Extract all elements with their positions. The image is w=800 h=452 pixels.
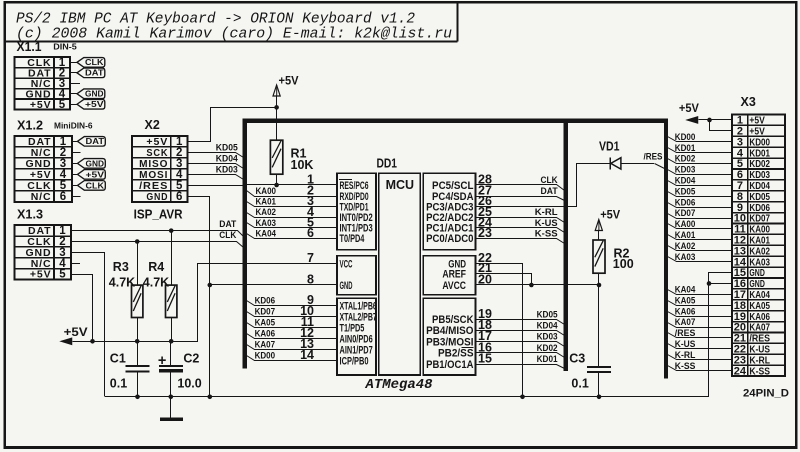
svg-text:R4: R4 [148, 260, 164, 274]
wire KD04 from pin 18 [476, 331, 565, 336]
svg-text:+: + [158, 353, 166, 369]
wire KD07 to pin 10 [247, 312, 337, 317]
MCU DD1 right box pins 28-23 [423, 173, 475, 250]
junction GND vertical / ground rail [208, 395, 213, 400]
wire C3 bottom [598, 373, 600, 397]
+5V arrow (R2) [595, 220, 602, 231]
svg-text:ATMega48: ATMega48 [365, 377, 434, 393]
overline on SS (PB2/SS) [462, 347, 474, 349]
wire C1 bottom [137, 373, 139, 397]
capacitor C1 [126, 365, 150, 367]
wire KA07 to X3 pin 20 [668, 323, 732, 328]
svg-text:X2: X2 [145, 118, 160, 132]
wire KA02 to X3 pin 13 [668, 246, 732, 251]
svg-text:C3: C3 [569, 352, 585, 366]
wire KA07 to pin 13 [247, 345, 337, 350]
svg-text:KA04: KA04 [256, 228, 277, 239]
svg-text:+5V: +5V [279, 73, 299, 87]
junction pin22 GND / ground rail [520, 395, 525, 400]
wire KD07 to X3 pin 10 [668, 214, 732, 219]
wire K-US from pin 24 [476, 228, 565, 233]
svg-text:KD00: KD00 [675, 132, 696, 143]
svg-text:K-SS: K-SS [535, 228, 558, 239]
svg-text:KA00: KA00 [256, 186, 277, 197]
junction C2 / ground rail [169, 395, 174, 400]
wire C1 top [137, 341, 139, 365]
wire X1.2 pin 4 [72, 174, 78, 176]
net flag +5V (X1.1) [77, 99, 105, 109]
svg-text:ISP_AVR: ISP_AVR [134, 208, 183, 222]
junction R1 top / X2 +5V [274, 105, 279, 110]
wire GND to pin8 [210, 284, 337, 286]
svg-text:23: 23 [478, 226, 492, 240]
wire KD05 from pin 19 [476, 320, 565, 325]
MCU DD1 right box GND/AREF/AVCC [423, 256, 475, 295]
wire K-SS to X3 pin 24 [668, 366, 732, 371]
svg-text:X1.3: X1.3 [17, 208, 43, 222]
svg-text:KD03: KD03 [216, 164, 238, 175]
svg-text:KD04: KD04 [675, 175, 696, 186]
stub X1.3 pin 4 N/C [71, 263, 80, 265]
svg-text:PB4/MISO: PB4/MISO [426, 325, 474, 337]
wire R2 bottom to AVCC [598, 273, 600, 285]
wire KD04 from X2 pin 3 [188, 164, 244, 169]
resistor R1 [270, 140, 282, 174]
bus right vertical (X3 side) [664, 119, 668, 379]
net flag CLK (X1.1) [77, 58, 105, 68]
wire CLK from X1.3 pin2 [71, 242, 244, 248]
svg-text:VD1: VD1 [599, 140, 620, 154]
svg-text:CLK: CLK [541, 175, 558, 186]
svg-text:KA01: KA01 [256, 197, 277, 208]
wire KD01 from pin 15 [476, 365, 565, 369]
bus left vertical [243, 119, 247, 369]
bus top horizontal [243, 119, 668, 123]
svg-text:R3: R3 [113, 260, 129, 274]
wire KD00 to pin 14 [247, 356, 337, 361]
wire R3 top [137, 241, 139, 285]
svg-text:K-US: K-US [675, 339, 696, 350]
wire /RES from pin26 via VD1 [476, 164, 611, 207]
wire KA04 to pin 6 [247, 234, 337, 239]
svg-text:KD05: KD05 [537, 309, 559, 320]
svg-text:KA05: KA05 [255, 318, 276, 329]
svg-text:KA03: KA03 [256, 218, 277, 229]
stub X1.1 pin 3 N/C [70, 83, 80, 85]
svg-text:/RES: /RES [675, 328, 696, 339]
svg-text:T0/PD4: T0/PD4 [340, 233, 365, 245]
svg-text:KD07: KD07 [675, 208, 696, 219]
svg-text:6: 6 [176, 191, 182, 203]
wire R3 bottom [137, 318, 139, 342]
svg-text:0.1: 0.1 [110, 376, 127, 390]
MCU DD1 left box VCC/GND [337, 256, 376, 295]
wire X1.2 pin 5 [72, 185, 78, 187]
bus middle vertical [564, 119, 568, 371]
wire KD00 to X3 pin 3 [668, 137, 732, 142]
svg-text:AREF: AREF [442, 268, 466, 280]
wire KA02 to pin 4 [247, 213, 337, 218]
svg-text:DIN-5: DIN-5 [53, 43, 77, 52]
connector X1.3 [15, 225, 71, 279]
svg-text:KD05: KD05 [675, 186, 696, 197]
svg-text:KD00: KD00 [255, 351, 276, 362]
wire X1.1 pin 2 [70, 72, 77, 74]
MCU DD1 center body [379, 173, 421, 375]
wire X3 pin1 +5V [698, 119, 732, 121]
wire KA01 to pin 3 [247, 202, 337, 207]
wire X1.3 pin3 GND [71, 253, 105, 397]
svg-text:+5V: +5V [679, 101, 699, 115]
svg-text:10.0: 10.0 [177, 376, 201, 390]
wire pin20 AVCC to R2/C3 [475, 284, 599, 286]
svg-text:KD06: KD06 [675, 197, 696, 208]
junction X1.3 +5V / rail [90, 339, 95, 344]
junction R3/C1 / rail [135, 339, 140, 344]
svg-text:KA06: KA06 [675, 306, 696, 317]
junction AVCC / R2 bottom [597, 283, 602, 288]
svg-text:CLK: CLK [219, 230, 236, 241]
svg-text:CLK: CLK [86, 181, 105, 190]
diode VD1 [609, 157, 611, 169]
svg-text:DD1: DD1 [377, 157, 398, 171]
+5V arrow (bottom left) [61, 338, 72, 345]
svg-text:+5V: +5V [64, 325, 88, 339]
svg-text:KA02: KA02 [256, 207, 277, 218]
svg-text:24: 24 [734, 365, 747, 377]
wire R1 bottom to /RES pin1 [276, 174, 278, 185]
net flag DAT (X1.1) [77, 68, 105, 78]
net flag GND (X1.1) [77, 89, 105, 99]
wire KA06 to pin 12 [247, 334, 337, 339]
svg-text:KD06: KD06 [255, 296, 276, 307]
svg-text:GND: GND [146, 191, 168, 203]
svg-text:X1.2: X1.2 [17, 118, 43, 132]
ground [170, 397, 172, 418]
svg-text:K-RL: K-RL [675, 350, 696, 361]
svg-text:6: 6 [60, 191, 66, 203]
svg-text:DAT: DAT [219, 219, 236, 230]
net flag +5V (X1.2) [78, 170, 106, 180]
overline on RES [339, 179, 352, 181]
svg-text:KA04: KA04 [675, 284, 696, 295]
svg-text:5: 5 [59, 269, 66, 281]
wire KA04 to X3 pin 17 [668, 290, 732, 295]
wire KD02 from pin 16 [476, 353, 565, 358]
wire KA00 to X3 pin 11 [668, 224, 732, 229]
junction R4/C2 / rail [169, 339, 174, 344]
svg-text:100: 100 [613, 257, 634, 271]
svg-text:PB1/OC1A: PB1/OC1A [426, 359, 473, 371]
svg-text:KA03: KA03 [675, 252, 696, 263]
svg-text:KA02: KA02 [675, 241, 696, 252]
svg-text:(c) 2008 Kamil Karimov (caro: (c) 2008 Kamil Karimov (caro) E-mail: k2… [16, 26, 452, 42]
svg-text:PB2/SS: PB2/SS [438, 348, 474, 360]
wire +5V to R1 top [276, 96, 278, 140]
net flag CLK (X1.2) [78, 181, 106, 191]
wire K-SS from pin 23 [476, 239, 565, 244]
svg-text:KD07: KD07 [255, 307, 276, 318]
svg-text:15: 15 [478, 352, 492, 366]
svg-text:GND: GND [85, 90, 104, 99]
wire K-US to X3 pin 22 [668, 344, 732, 349]
wire C3 top (AVCC) [598, 285, 600, 366]
MCU DD1 left box pins 9-14 [337, 298, 376, 375]
wire KD03 from pin 17 [476, 342, 565, 347]
frame border [4, 1, 797, 3]
svg-text:5: 5 [59, 99, 66, 111]
svg-text:CLK: CLK [85, 58, 104, 67]
svg-text:N/C: N/C [31, 191, 52, 203]
capacitor C2 top plate [159, 365, 183, 367]
svg-text:0.1: 0.1 [571, 377, 588, 391]
junction X3 GND pins [707, 281, 712, 286]
svg-text:VCC: VCC [340, 258, 353, 270]
svg-text:DAT: DAT [85, 69, 104, 78]
svg-text:KD05: KD05 [216, 142, 239, 153]
wire +5V arrow to R2 [598, 231, 600, 240]
svg-text:+5V: +5V [85, 100, 104, 109]
wire DAT from pin 27 [476, 197, 565, 201]
wire C2 bottom [170, 372, 172, 397]
wire X1.2 pin 1 [72, 141, 78, 143]
wire KD03 from X2 pin 4 [188, 175, 244, 180]
svg-text:KA07: KA07 [675, 317, 696, 328]
resistor R2 [593, 240, 605, 273]
wire pin22 GND [476, 264, 523, 397]
stub X1.2 pin 2 N/C [72, 152, 81, 154]
wire K-RL from pin 25 [476, 218, 565, 223]
wire KD05 to X3 pin 8 [668, 192, 732, 197]
connector X1.1 [15, 57, 70, 109]
resistor R4 [166, 285, 177, 317]
svg-text:KD01: KD01 [675, 143, 696, 154]
junction C1 / ground rail [135, 395, 140, 400]
wire X2 pin6 GND [188, 197, 210, 397]
svg-text:ICP/PB0: ICP/PB0 [340, 355, 369, 367]
title box [5, 41, 458, 43]
wire ground rail [105, 396, 709, 398]
junction AREF/AVCC [529, 283, 534, 288]
connector X1.2 [15, 136, 72, 202]
svg-text:+5V: +5V [30, 99, 52, 111]
+5V arrow (X3) [687, 117, 698, 124]
junction GND vertical / MCU pin8 [208, 283, 213, 288]
wire KD01 to X3 pin 4 [668, 148, 732, 153]
wire KA00 to pin 2 [247, 191, 337, 197]
svg-text:KA00: KA00 [675, 219, 696, 230]
wire CLK from pin 28 [476, 185, 565, 191]
wire KA01 to X3 pin 12 [668, 235, 732, 240]
stub X1.2 pin 6 N/C [72, 196, 81, 198]
svg-text:4.7K: 4.7K [143, 275, 169, 289]
wire X1.1 pin 1 [70, 62, 77, 64]
wire KA03 to pin 5 [247, 223, 337, 228]
wire pin21 AREF [476, 274, 532, 285]
svg-text:DAT: DAT [86, 137, 105, 146]
wire X1.3 pin5 +5V [71, 275, 93, 342]
wire X1.2 pin 3 [72, 163, 78, 165]
svg-text:6: 6 [307, 226, 314, 240]
wire KA03 to X3 pin 14 [668, 257, 732, 262]
wire K-RL to X3 pin 23 [668, 355, 732, 360]
svg-text:KA05: KA05 [675, 295, 696, 306]
+5V arrow (R1) [273, 85, 280, 96]
svg-text:GND: GND [340, 280, 353, 292]
svg-text:+5V: +5V [30, 269, 52, 281]
svg-text:MiniDIN-6: MiniDIN-6 [54, 121, 93, 130]
svg-text:KD03: KD03 [537, 332, 558, 343]
wire KA05 to pin 11 [247, 323, 337, 328]
net flag DAT (X1.2) [78, 137, 106, 147]
wire /RES to X3 pin 21 [668, 333, 732, 338]
wire X3 pin2 +5V [710, 120, 732, 131]
svg-text:KD01: KD01 [537, 354, 559, 365]
wire R4 top [171, 231, 173, 285]
svg-text:K-US: K-US [535, 218, 558, 229]
wire /RES bus to pin1 [247, 184, 337, 186]
capacitor C3 [587, 366, 611, 368]
svg-text:+5V: +5V [600, 207, 620, 221]
svg-text:DAT: DAT [541, 186, 558, 197]
wire X1.1 pin 4 [70, 93, 77, 95]
wire +5V rail (bottom left) [73, 264, 337, 342]
svg-text:X3: X3 [741, 95, 756, 109]
junction R4 top / DAT [169, 228, 174, 233]
svg-text:PC0/ADC0: PC0/ADC0 [426, 233, 473, 245]
svg-text:KA06: KA06 [255, 329, 276, 340]
svg-text:KD02: KD02 [675, 154, 696, 165]
junction R1 bottom / pin1 wire [274, 183, 279, 188]
wire C2 top [170, 341, 172, 365]
svg-text:+5V: +5V [86, 170, 105, 179]
svg-text:AVCC: AVCC [442, 280, 466, 292]
svg-text:KD03: KD03 [675, 165, 696, 176]
wire X2 pin1 +5V [188, 108, 277, 142]
wire KD04 to X3 pin 7 [668, 181, 732, 186]
wire KA05 to X3 pin 18 [668, 301, 732, 306]
svg-text:10K: 10K [291, 158, 314, 172]
wire X1.1 pin 5 [70, 104, 77, 106]
wire DAT from X1.3 pin1 [71, 231, 244, 237]
wire R4 bottom [171, 318, 173, 342]
svg-text:4.7K: 4.7K [109, 275, 135, 289]
junction C3 / ground rail [597, 395, 602, 400]
svg-text:C2: C2 [183, 351, 199, 365]
net flag GND (X1.2) [78, 159, 106, 169]
svg-text:PS/2 IBM PC AT Keyboard -> OR: PS/2 IBM PC AT Keyboard -> ORION Keyboar… [16, 11, 415, 27]
svg-text:MCU: MCU [386, 178, 414, 192]
svg-text:KA01: KA01 [675, 230, 696, 241]
svg-text:KD02: KD02 [537, 343, 558, 354]
junction X3 pin1/pin2 [707, 118, 712, 123]
MCU DD1 left box pins 1-6 [337, 173, 376, 250]
junction R3 top / CLK [135, 239, 140, 244]
wire KD05 from X2 pin 2 [188, 153, 244, 158]
svg-text:24PIN_D: 24PIN_D [743, 388, 789, 400]
wire KD03 to X3 pin 6 [668, 170, 732, 175]
connector X2 (ISP) [132, 136, 188, 202]
svg-text:GND: GND [86, 159, 105, 168]
svg-text:X1.1: X1.1 [17, 40, 42, 54]
svg-text:K-RL: K-RL [535, 207, 558, 218]
wire KD02 to X3 pin 5 [668, 159, 732, 164]
resistor R3 [132, 285, 143, 317]
wire KD06 to X3 pin 9 [668, 203, 732, 208]
wire KD06 to pin 9 [247, 301, 337, 306]
capacitor C2 bottom plate (thick) [159, 369, 183, 372]
MCU DD1 right box pins 19-15 [423, 298, 475, 375]
connector X3 (24PIN_D) [732, 115, 785, 377]
svg-text:PB3/MOSI: PB3/MOSI [426, 336, 473, 348]
svg-text:KD04: KD04 [537, 320, 559, 331]
svg-text:KD04: KD04 [216, 153, 239, 164]
svg-text:C1: C1 [110, 351, 126, 365]
wire X2 pin5 /RES to bus [188, 185, 243, 187]
svg-text:K-SS: K-SS [675, 361, 696, 372]
wire KA06 to X3 pin 19 [668, 312, 732, 317]
svg-text:K-SS: K-SS [749, 365, 770, 377]
svg-text:/RES: /RES [644, 151, 663, 162]
svg-text:KA07: KA07 [255, 340, 276, 351]
wire X3 pins 15/16 GND [709, 273, 732, 397]
